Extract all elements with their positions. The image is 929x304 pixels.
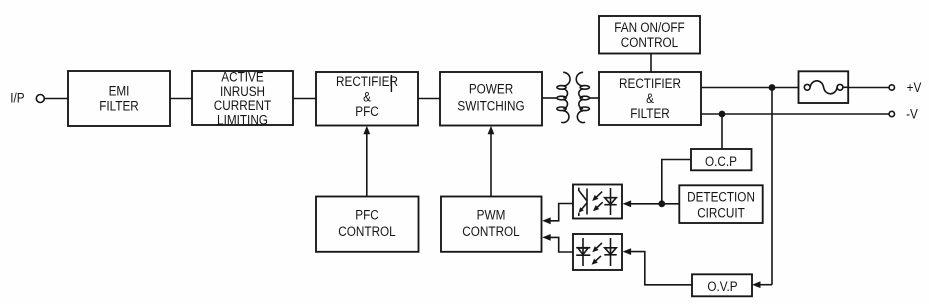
svg-text:-V: -V: [906, 106, 918, 122]
svg-text:I/P: I/P: [10, 90, 24, 106]
svg-text:SWITCHING: SWITCHING: [457, 98, 524, 114]
svg-text:FILTER: FILTER: [630, 105, 670, 121]
svg-text:CONTROL: CONTROL: [338, 223, 395, 239]
svg-text:RECTIFIER: RECTIFIER: [619, 75, 681, 91]
svg-text:RECTIFIER: RECTIFIER: [336, 73, 398, 89]
svg-text:+V: +V: [907, 79, 922, 95]
svg-text:PWM: PWM: [477, 207, 506, 223]
svg-text:POWER: POWER: [469, 81, 513, 97]
svg-text:&: &: [646, 90, 654, 106]
svg-text:O.C.P: O.C.P: [705, 153, 737, 169]
svg-text:EMI: EMI: [109, 83, 130, 99]
svg-text:LIMITING: LIMITING: [217, 111, 268, 127]
svg-text:CONTROL: CONTROL: [462, 223, 519, 239]
svg-text:CIRCUIT: CIRCUIT: [697, 204, 745, 220]
svg-text:O.V.P: O.V.P: [707, 278, 737, 294]
svg-text:CONTROL: CONTROL: [621, 34, 678, 50]
svg-text:FILTER: FILTER: [99, 98, 139, 114]
svg-text:FAN ON/OFF: FAN ON/OFF: [614, 19, 685, 35]
svg-text:PFC: PFC: [355, 207, 378, 223]
svg-text:DETECTION: DETECTION: [687, 188, 755, 204]
svg-text:&: &: [363, 88, 371, 104]
svg-text:PFC: PFC: [355, 103, 378, 119]
